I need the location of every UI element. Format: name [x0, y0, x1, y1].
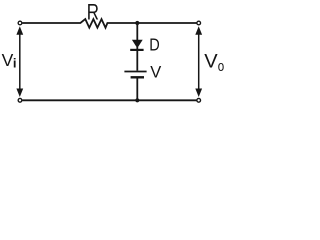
svg-text:R: R — [87, 0, 99, 25]
svg-text:V: V — [204, 51, 218, 73]
svg-text:D: D — [149, 35, 159, 55]
svg-text:o: o — [218, 58, 224, 75]
svg-text:V: V — [150, 62, 162, 81]
svg-text:V: V — [2, 50, 14, 70]
svg-text:i: i — [13, 56, 17, 71]
